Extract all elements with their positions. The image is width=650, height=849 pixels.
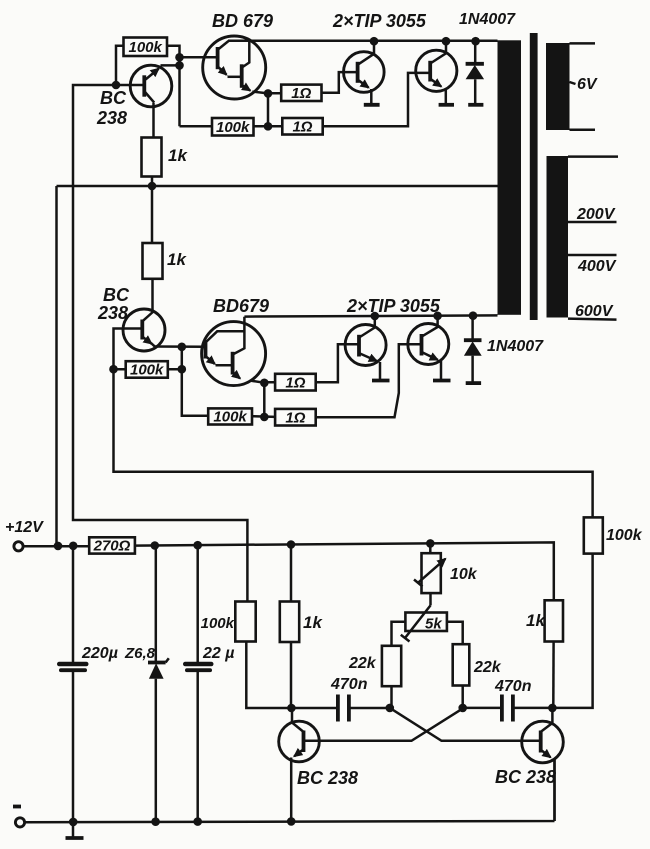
wire: cross-coupling right base — [390, 708, 541, 741]
svg-text:238: 238 — [97, 303, 128, 323]
resistor R11 270-ohm — [89, 537, 135, 554]
wire: 6V tap tick — [570, 82, 576, 84]
wire: 1-ohm R5 to Q3 base — [322, 72, 358, 93]
transformer T1 secondary 6V winding — [546, 43, 570, 130]
wire: top collector rail to transformer primary — [228, 40, 498, 43]
svg-text:1Ω: 1Ω — [285, 410, 305, 427]
transistor Q7 BC238 (astable left) — [279, 708, 320, 822]
resistor R9 1-ohm — [275, 374, 316, 392]
diode D2 1N4007 (bottom) — [464, 316, 482, 383]
transistor Q6 TIP3055 (bottom pair, right) — [408, 316, 451, 381]
wire: bottom collector rail to transformer primary — [244, 315, 497, 316]
wire: emitter node down to 100k R8 — [182, 347, 208, 416]
svg-text:2×TIP 3055: 2×TIP 3055 — [332, 11, 427, 31]
wire: 100k R1 right leg down collector node — [167, 46, 180, 127]
svg-text:22 µ: 22 µ — [202, 645, 234, 662]
svg-text:BC: BC — [100, 88, 127, 108]
transformer T1 core — [530, 33, 538, 320]
wire: 100k R1 left leg to Q1 base — [116, 46, 124, 85]
svg-text:220µ: 220µ — [81, 645, 118, 662]
wire: Q1 base to left rail down and over to 100k feedback resistor — [73, 85, 247, 602]
resistor R5 1-ohm — [281, 85, 321, 102]
svg-text:1N4007: 1N4007 — [459, 11, 516, 28]
wire: 600V bottom lead — [568, 319, 617, 320]
svg-text:1N4007: 1N4007 — [487, 338, 544, 355]
wire: R4 1k down to Q2 collector — [151, 279, 154, 312]
wire: 1-ohm R9 to Q5 base — [316, 344, 359, 382]
svg-text:22k: 22k — [348, 655, 377, 672]
terminal: minus output — [15, 759, 554, 828]
diode D1 1N4007 (top) — [466, 42, 485, 105]
transformer T1 secondary HV winding — [547, 156, 569, 318]
wire: cross-coupling left base — [304, 708, 464, 741]
resistor R17 22k (right) — [453, 644, 502, 685]
svg-text:238: 238 — [96, 108, 127, 128]
wire: HV winding top lead — [568, 155, 618, 158]
capacitor C1 220u — [57, 546, 89, 838]
label: minus sign — [13, 805, 21, 809]
svg-text:22k: 22k — [473, 659, 502, 676]
resistor R16 22k (left) — [348, 646, 401, 686]
wire: R18 bottom lead — [552, 642, 555, 708]
wire: R3 1k to center-tap rail — [151, 177, 154, 244]
svg-text:100k: 100k — [606, 527, 643, 544]
transistor Q5 TIP3055 (bottom pair, left) — [345, 316, 389, 380]
svg-text:400V: 400V — [577, 258, 617, 275]
wire: R12 bottom to left collector node — [246, 642, 291, 709]
wire: Q2 emitter to U2 base — [154, 345, 206, 348]
terminal: +12V input — [14, 542, 89, 551]
transistor Q1 BC238 (top driver) — [130, 65, 172, 107]
wire: 22k bottoms — [392, 686, 463, 708]
wire: right collector node to R19 — [552, 554, 592, 708]
svg-text:6V: 6V — [577, 76, 598, 93]
node: Q2 base junction — [109, 365, 118, 374]
resistor R12 100k (vertical, astable left feed) — [201, 602, 256, 642]
potentiometer R15 5k — [401, 593, 447, 641]
svg-text:1Ω: 1Ω — [291, 85, 311, 102]
svg-text:100k: 100k — [201, 615, 235, 632]
svg-text:1k: 1k — [526, 611, 546, 630]
wire: U1 emitter node verticals and 100k R2 legs — [180, 92, 283, 127]
transistor Q8 BC238 (astable right) — [522, 708, 564, 821]
wire: 6V winding top lead — [570, 42, 596, 45]
wire: 200V tap lead — [568, 221, 617, 224]
resistor R1 100k (top) — [124, 38, 168, 57]
svg-text:100k: 100k — [130, 362, 164, 379]
resistor R13 1k (vertical, astable left collector load) — [280, 602, 324, 643]
wire: Q1 collector down to R3 1k — [152, 103, 155, 138]
svg-text:BC: BC — [103, 285, 130, 305]
node: bottom rail junctions — [371, 311, 478, 320]
wire: +12V rail to right side — [135, 542, 554, 600]
svg-text:BD679: BD679 — [213, 296, 269, 316]
svg-text:1k: 1k — [168, 146, 188, 165]
transformer T1 primary winding — [498, 40, 522, 315]
resistor R6 1-ohm — [282, 118, 322, 136]
transistor Q4 TIP3055 (top pair, right) — [416, 42, 457, 105]
resistor R10 1-ohm — [275, 409, 316, 427]
potentiometer R14 10k — [414, 543, 445, 593]
wire: R13 leads — [290, 545, 293, 708]
svg-text:100k: 100k — [129, 39, 163, 56]
svg-text:1Ω: 1Ω — [292, 119, 312, 136]
svg-text:BC 238: BC 238 — [495, 767, 556, 787]
wire: 400V tap lead — [568, 254, 617, 257]
svg-text:200V: 200V — [576, 206, 616, 223]
node: Q1 base junction — [112, 81, 121, 90]
wire: 5k wiper side leads to 22k resistors — [392, 622, 463, 646]
wire: 100k R8 right leg — [252, 415, 275, 418]
wire: node to U1 base — [180, 56, 218, 59]
op-amp U2: darlington BD679 (bottom) — [202, 317, 266, 386]
svg-text:BD 679: BD 679 — [212, 11, 273, 31]
svg-text:1Ω: 1Ω — [285, 375, 305, 392]
node: +12V rail junctions — [54, 539, 435, 550]
wire: Q2 base rail down and feedback run to right 100k — [114, 329, 593, 518]
node: astable collector and base junctions — [287, 704, 557, 713]
svg-text:2×TIP 3055: 2×TIP 3055 — [346, 296, 441, 316]
svg-text:270Ω: 270Ω — [93, 538, 131, 555]
svg-text:1k: 1k — [167, 250, 187, 269]
svg-text:470n: 470n — [494, 678, 532, 695]
node: bottom rail junctions — [69, 817, 296, 826]
node: U1 emitter junctions — [264, 89, 273, 131]
svg-text:100k: 100k — [216, 119, 250, 136]
capacitor C3 470n (left) — [291, 695, 389, 722]
svg-text:10k: 10k — [450, 566, 478, 583]
node: top rail junctions — [370, 37, 480, 46]
node: Q2 emitter junctions — [178, 343, 187, 374]
resistor R4 1k (vertical, middle) — [143, 243, 188, 279]
capacitor C2 22u — [183, 546, 214, 822]
wire: 1-ohm R10 to Q6 base — [316, 344, 422, 417]
svg-text:+12V: +12V — [5, 519, 44, 536]
resistor R8 100k (bottom stage, second) — [208, 408, 252, 425]
node: center tap junction — [148, 182, 157, 191]
resistor R3 1k (vertical, top) — [142, 138, 189, 177]
capacitor C4 470n (right) — [463, 695, 553, 722]
transistor Q2 BC238 (bottom driver) — [123, 309, 165, 351]
diode D3 zener Z6.8 — [148, 546, 169, 822]
node: U2 emitter junctions — [260, 379, 269, 422]
resistor R2 100k (top stage, second) — [212, 118, 254, 136]
wire: U2 emitter node verticals — [251, 381, 276, 417]
op-amp U1: darlington BD679 (top) — [203, 36, 266, 99]
transistor Q3 TIP3055 (top pair, left) — [344, 42, 385, 105]
resistor R7 100k (bottom stage) — [126, 361, 168, 379]
wire: 6V winding bottom lead — [570, 129, 596, 132]
svg-text:BC 238: BC 238 — [297, 768, 358, 788]
wire: 100k R7 legs — [114, 368, 182, 371]
wire: transformer primary center tap to +12V rail — [57, 186, 498, 546]
node: Q1 collector junctions — [175, 53, 184, 70]
svg-text:Z6,8: Z6,8 — [124, 645, 156, 662]
wire: Q1 emitter to collector node — [161, 64, 180, 67]
svg-text:1k: 1k — [303, 613, 323, 632]
resistor R19 100k (vertical, right feedback) — [584, 517, 643, 553]
svg-text:470n: 470n — [330, 676, 368, 693]
resistor R18 1k (vertical, astable right collector load) — [526, 600, 563, 641]
wire: 1-ohm R6 to Q4 base — [323, 73, 431, 126]
svg-text:600V: 600V — [575, 303, 614, 320]
svg-text:100k: 100k — [213, 409, 247, 426]
svg-text:5k: 5k — [425, 616, 442, 633]
